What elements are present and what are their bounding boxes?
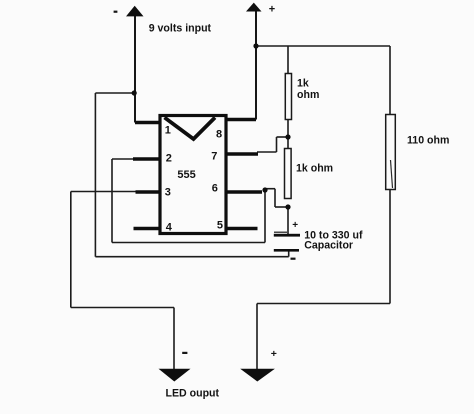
svg-text:4: 4: [166, 222, 173, 234]
svg-text:1k ohm: 1k ohm: [296, 162, 333, 174]
svg-text:1: 1: [165, 125, 171, 137]
svg-text:+: +: [271, 348, 277, 360]
svg-text:5: 5: [217, 220, 223, 232]
svg-text:7: 7: [211, 151, 217, 163]
svg-text:555: 555: [177, 169, 195, 181]
svg-text:9 volts input: 9 volts input: [149, 22, 212, 34]
svg-text:6: 6: [212, 183, 218, 195]
svg-text:110 ohm: 110 ohm: [407, 134, 449, 146]
svg-text:LED ouput: LED ouput: [166, 388, 220, 400]
svg-text:ohm: ohm: [297, 89, 319, 101]
svg-text:+: +: [269, 3, 275, 15]
svg-text:3: 3: [165, 186, 171, 198]
svg-text:8: 8: [216, 128, 222, 140]
svg-text:Capacitor: Capacitor: [304, 240, 353, 252]
svg-text:1k: 1k: [297, 78, 309, 90]
svg-text:2: 2: [166, 153, 172, 165]
svg-text:+: +: [292, 220, 298, 231]
